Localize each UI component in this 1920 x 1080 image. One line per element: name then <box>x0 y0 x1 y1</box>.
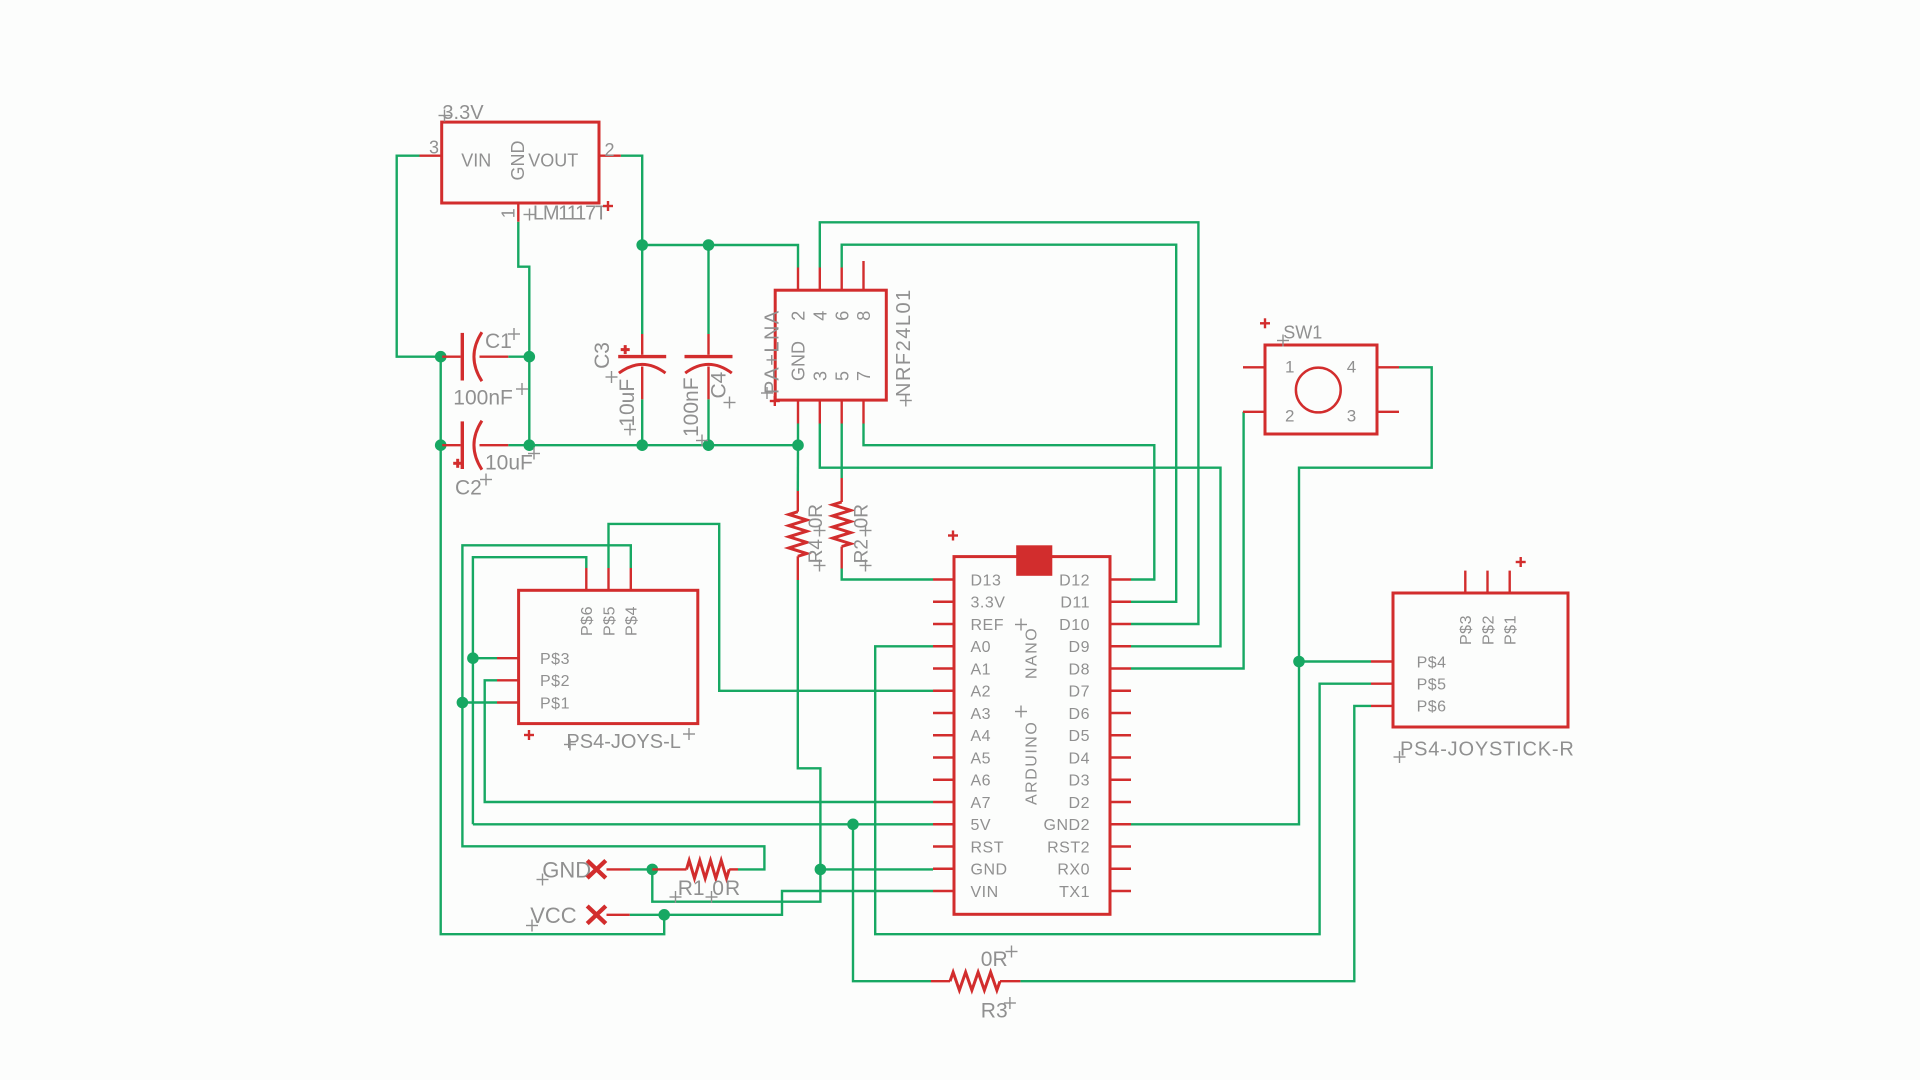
svg-text:2: 2 <box>789 311 809 321</box>
svg-text:P$6: P$6 <box>1417 699 1447 716</box>
PS4-JOYS-L origin cross <box>564 739 576 751</box>
no-connect flag GND label <box>542 858 591 883</box>
NRF pin 3 stub <box>819 400 821 423</box>
junction NRF GND / R4 <box>792 439 804 451</box>
R1 value 0R <box>712 877 741 900</box>
svg-text:A6: A6 <box>971 773 992 790</box>
wire P$1 junction up to P$4 top pin <box>462 545 630 702</box>
NRF pin 7 name <box>854 371 874 381</box>
LM1117T pin 2 number <box>605 140 615 160</box>
arduino NANO body <box>954 557 1110 915</box>
NANO pin A2 <box>933 684 991 701</box>
junction C3 top <box>636 239 648 251</box>
junction C2 right <box>524 439 536 451</box>
svg-text:P$4: P$4 <box>624 606 641 636</box>
NANO pin 3.3V <box>933 595 1005 612</box>
ARDUINO label origin cross <box>1015 706 1027 718</box>
NANO pin TX1 <box>1059 884 1131 901</box>
svg-text:D3: D3 <box>1069 773 1090 790</box>
svg-text:5: 5 <box>832 371 852 381</box>
C2 name label <box>455 477 482 500</box>
NANO pin A1 <box>933 661 991 678</box>
NANO pin A0 <box>933 639 991 656</box>
JOYSTICK-R pin P$3 stub <box>1464 571 1466 593</box>
svg-text:D5: D5 <box>1069 728 1090 745</box>
NRF pin 5 stub <box>841 400 843 423</box>
wire 3.3V: C3 top to C4 top <box>642 244 708 246</box>
capacitor C1 <box>442 332 508 381</box>
GND flag origin cross <box>537 874 549 886</box>
wire A7 to PS4-JOYS-L P$2 <box>485 680 933 802</box>
connector PS4-JOYS-L body <box>519 590 698 723</box>
junction C1 right <box>524 351 536 363</box>
svg-text:VCC: VCC <box>530 903 577 928</box>
svg-text:2: 2 <box>1285 407 1294 426</box>
wire GND: LM1117 pin1 to C1 right <box>518 222 529 357</box>
wire P$4 junction to P$4 stub <box>1299 660 1371 662</box>
NANO pin D4 <box>1069 750 1131 767</box>
NRF pin 2 name <box>789 311 809 321</box>
C2 name origin cross <box>480 474 492 486</box>
svg-text:REF: REF <box>971 617 1005 634</box>
JOYS-L pin P$5 name <box>601 606 618 636</box>
junction C4 top <box>703 239 715 251</box>
NANO pin A4 <box>933 728 991 745</box>
NANO pin D9 <box>1069 639 1131 656</box>
svg-text:D4: D4 <box>1069 750 1090 767</box>
SW1 pin 1 number <box>1285 358 1294 377</box>
wire GND: junction loop to R1 junction <box>652 869 820 901</box>
wire 5V: junction down to R3 left <box>853 824 931 981</box>
LM1117T origin cross <box>524 209 536 221</box>
svg-text:P$5: P$5 <box>601 606 618 636</box>
svg-text:TX1: TX1 <box>1059 884 1090 901</box>
regulator LM1117T body <box>442 122 599 203</box>
svg-text:R4: R4 <box>806 539 827 564</box>
C3 name origin cross <box>606 371 618 383</box>
NRF pin 2 stub <box>797 268 799 291</box>
NANO pin D8 <box>1069 661 1131 678</box>
PS4-JOYSTICK-R red origin mark <box>1516 557 1526 567</box>
JOYSTICK-R pin P$2 stub <box>1486 571 1488 593</box>
resistor R3 leads <box>931 980 1020 982</box>
C4 value origin cross <box>696 435 708 447</box>
svg-text:VIN: VIN <box>461 151 491 171</box>
JOYS-L pin P$1 stub <box>497 701 519 703</box>
NANO pin GND <box>933 862 1008 879</box>
svg-text:8: 8 <box>854 311 874 321</box>
wire 5V: junction up to P$6 top pin <box>473 557 586 658</box>
svg-text:PS4-JOYSTICK-R: PS4-JOYSTICK-R <box>1400 739 1575 761</box>
wire D13 to R2 bottom <box>842 569 933 580</box>
LM1117T pin name VOUT <box>528 151 578 171</box>
svg-text:C3: C3 <box>591 342 614 369</box>
PS4-JOYS-L red origin mark <box>524 730 534 740</box>
svg-text:GND2: GND2 <box>1044 817 1090 834</box>
junction VCC <box>658 909 670 921</box>
3.3V label origin cross <box>439 110 451 122</box>
svg-text:D8: D8 <box>1069 661 1090 678</box>
svg-text:P$5: P$5 <box>1417 677 1447 694</box>
NANO pin D2 <box>1069 795 1131 812</box>
SW1 name origin cross <box>1277 335 1289 347</box>
junction P$4 / GND2 <box>1293 656 1305 668</box>
svg-text:GND: GND <box>789 341 809 381</box>
NANO pin D3 <box>1069 773 1131 790</box>
LM1117T pin 1 stub <box>517 203 519 222</box>
NANO pin D11 <box>1060 595 1131 612</box>
JOYSTICK-R pin P$4 stub <box>1371 660 1393 662</box>
svg-text:3: 3 <box>429 138 439 158</box>
R4 value 0R <box>806 504 827 528</box>
JOYS-L pin P$2 stub <box>497 679 519 681</box>
svg-text:100nF: 100nF <box>680 377 703 437</box>
JOYSTICK-R pin P$5 stub <box>1371 683 1393 685</box>
wire NRF pin 7 to NANO D12 <box>864 424 1155 580</box>
svg-text:10uF: 10uF <box>485 452 533 475</box>
wire NRF pin 4 to NANO D10 <box>820 222 1199 624</box>
LM1117T pin name VIN <box>461 151 491 171</box>
NRF name origin cross <box>900 395 912 407</box>
svg-text:C4: C4 <box>708 371 731 398</box>
C4 value 100nF <box>680 377 703 437</box>
svg-text:0R: 0R <box>806 504 827 528</box>
resistor R4 leads <box>797 491 799 580</box>
C4 name label <box>708 371 731 398</box>
R2 name origin cross <box>860 560 872 572</box>
VCC flag origin cross <box>526 920 538 932</box>
JOYS-L pin P$6 name <box>579 606 596 636</box>
svg-text:A3: A3 <box>971 706 992 723</box>
R2 name label <box>852 539 873 563</box>
wire GND: R4 bottom to NANO GND junction <box>798 580 821 869</box>
JOYSTICK-R pin P$4 name <box>1417 654 1447 671</box>
SW1 pin 4 number <box>1347 358 1356 377</box>
JOYS-L pin P$1 name <box>540 695 570 712</box>
resistor R4 <box>789 512 807 557</box>
svg-text:RST: RST <box>971 839 1005 856</box>
svg-text:D9: D9 <box>1069 639 1090 656</box>
wire VIN net: LM1117 pin3 to C1 left <box>397 156 441 357</box>
wire GND: C3 bottom lead <box>641 399 643 445</box>
arduino NANO red tag <box>1016 545 1052 576</box>
svg-text:1: 1 <box>1285 358 1294 377</box>
wire VIN net: C1 left to C2 left <box>440 357 442 446</box>
NANO pin 5V <box>933 817 991 834</box>
JOYS-L pin P$3 name <box>540 651 570 668</box>
wire NRF pin 3 to NANO D9 <box>820 424 1221 647</box>
JOYS-L pin P$3 stub <box>497 657 519 659</box>
LM1117T pin 1 number <box>499 208 519 218</box>
svg-text:10uF: 10uF <box>616 379 639 427</box>
svg-text:PS4-JOYS-L: PS4-JOYS-L <box>566 731 680 753</box>
C2 value origin cross <box>528 448 540 460</box>
wire SW1 pin 2 to NANO D8 <box>1131 412 1244 669</box>
JOYSTICK-R pin P$3 name <box>1458 615 1475 645</box>
JOYS-L pin P$4 stub <box>630 568 632 590</box>
LM1117T pin 3 number <box>429 138 439 158</box>
SW1 pin 3 number <box>1347 407 1356 426</box>
LM1117T name label <box>533 203 607 225</box>
wire P$1 junction to P$1 stub <box>462 701 497 703</box>
GND flag stub <box>607 868 631 870</box>
JOYS-L pin P$6 stub <box>585 568 587 590</box>
C3 name label <box>591 342 614 369</box>
NANO pin D10 <box>1059 617 1131 634</box>
wire GND rail: C2 to C3 bottom <box>529 444 642 446</box>
wire VIN net: C2 left down to VCC junction <box>441 445 665 934</box>
svg-text:3.3V: 3.3V <box>442 102 484 124</box>
NRF pin 8 stub <box>862 261 864 290</box>
svg-text:1: 1 <box>499 208 519 218</box>
JOYSTICK-R pin P$6 stub <box>1371 705 1393 707</box>
svg-text:0R: 0R <box>852 504 873 528</box>
wire R1 right to PS4-JOYS-L P$1 junction <box>462 703 764 870</box>
capacitor C2 <box>442 421 508 470</box>
NRF pin GND name <box>789 341 809 381</box>
wire GND rail: C3 to C4 bottom <box>642 444 708 446</box>
junction GND flag / R1 <box>647 864 659 876</box>
svg-text:C1: C1 <box>485 330 512 353</box>
NANO pin D6 <box>1069 706 1131 723</box>
no-connect flag VCC label <box>530 903 577 928</box>
wire GND: C1 right to C2 right <box>528 357 530 446</box>
C3 polarity mark <box>621 345 630 354</box>
wire 3.3V: C3 top lead <box>641 245 643 334</box>
NANO pin A5 <box>933 750 991 767</box>
junction C3 bottom <box>636 439 648 451</box>
svg-text:C2: C2 <box>455 477 482 500</box>
NANO pin RST <box>933 839 1004 856</box>
NRF pin 6 name <box>832 311 852 321</box>
svg-text:RST2: RST2 <box>1047 839 1090 856</box>
NRF name NRF24L01 <box>893 288 915 397</box>
C2 value 10uF <box>485 452 533 475</box>
wire GND: C2 right lead <box>508 444 529 446</box>
junction P$3 / 5V <box>467 652 479 664</box>
C3 value origin cross <box>624 424 636 436</box>
R2 value 0R <box>852 504 873 528</box>
svg-text:A2: A2 <box>971 684 992 701</box>
junction C1 left <box>435 351 447 363</box>
svg-text:P$2: P$2 <box>1480 615 1497 645</box>
R3 value 0R <box>981 948 1008 971</box>
R3 name origin cross <box>1004 997 1016 1009</box>
JOYS-L pin P$2 name <box>540 673 570 690</box>
C1 value origin cross <box>516 383 528 395</box>
LM1117T pin 3 stub <box>420 154 442 156</box>
PS4-JOYSTICK-R name label <box>1400 739 1575 761</box>
resistor R1 leads <box>652 868 738 870</box>
svg-text:A4: A4 <box>971 728 992 745</box>
NANO pin A7 <box>933 795 991 812</box>
svg-text:P$3: P$3 <box>540 651 570 668</box>
resistor R2 <box>833 502 851 547</box>
C3 value 10uF <box>616 379 639 427</box>
NANO pin RX0 <box>1057 862 1131 879</box>
NANO pin D12 <box>1059 572 1131 589</box>
NANO pin GND2 <box>1044 817 1131 834</box>
NRF pin 4 stub <box>819 268 821 291</box>
SW1 pin 2 number <box>1285 407 1294 426</box>
svg-text:A7: A7 <box>971 795 992 812</box>
NRF value PA+LNA <box>762 309 784 394</box>
resistor R3 <box>950 972 1000 990</box>
NANO pin VIN <box>933 884 999 901</box>
junction P$1 / R1 <box>457 697 469 709</box>
svg-text:4: 4 <box>810 311 830 321</box>
resistor R2 leads <box>841 478 843 569</box>
svg-text:P$1: P$1 <box>1503 615 1520 645</box>
svg-text:R2: R2 <box>852 539 873 563</box>
wire NRF pin 6 to NANO D11 <box>842 245 1176 602</box>
wire GND: junction to NANO GND pin <box>820 868 933 870</box>
NANO pin D5 <box>1069 728 1131 745</box>
JOYSTICK-R pin P$1 name <box>1503 615 1520 645</box>
C1 value 100nF <box>453 387 513 410</box>
svg-text:SW1: SW1 <box>1283 323 1322 343</box>
svg-text:R1: R1 <box>678 877 705 900</box>
svg-text:RX0: RX0 <box>1057 862 1090 879</box>
JOYSTICK-R pin P$6 name <box>1417 699 1447 716</box>
NRF red origin mark <box>770 396 780 406</box>
R4 value origin cross <box>814 525 826 537</box>
R3 name label <box>981 1000 1008 1023</box>
NRF pin 3 name <box>810 371 830 381</box>
wire GND rail: C4 to NRF GND junction <box>709 444 799 446</box>
NRF pin 6 stub <box>841 268 843 291</box>
wire GND: NRF GND pin to junction <box>797 424 799 446</box>
svg-text:100nF: 100nF <box>453 387 513 410</box>
JOYS-L pin P$5 stub <box>607 568 609 590</box>
svg-text:6: 6 <box>832 311 852 321</box>
SW1 name label <box>1283 323 1322 343</box>
wire GND flag to R1 junction <box>630 868 652 870</box>
NANO label origin cross <box>1015 619 1027 631</box>
C2 polarity mark <box>453 459 462 468</box>
SW1 pin 3 stub <box>1377 411 1399 413</box>
svg-text:D13: D13 <box>971 572 1002 589</box>
NRF pin GND stub <box>797 400 799 423</box>
NANO pin D7 <box>1069 684 1131 701</box>
NRF pin 8 name <box>854 311 874 321</box>
svg-text:VIN: VIN <box>971 884 999 901</box>
svg-text:GND: GND <box>971 862 1008 879</box>
VCC flag X mark <box>587 906 606 924</box>
wire R2 top to NRF pin 5 <box>841 424 843 479</box>
wire GND: C4 bottom lead <box>707 399 709 445</box>
wire 3.3V: LM1117 VOUT to C3 top junction <box>621 156 642 245</box>
svg-text:P$4: P$4 <box>1417 654 1447 671</box>
LM1117T pin 2 stub <box>599 154 621 156</box>
SW1 button circle <box>1296 368 1341 413</box>
wire 5V: riser to P$3 junction <box>472 658 474 824</box>
connector PS4-JOYSTICK-R body <box>1393 593 1568 727</box>
LM1117T pin name GND <box>508 141 528 181</box>
wire GND: junction to R4 top <box>797 445 800 491</box>
wire SW1 pin 4 to P$4 junction <box>1299 367 1432 661</box>
PS4-JOYS-L name label <box>566 731 680 753</box>
svg-text:2: 2 <box>605 140 615 160</box>
SW1 pin 4 stub <box>1377 366 1399 368</box>
arduino red origin mark <box>948 531 958 541</box>
GND flag X mark <box>587 861 606 879</box>
SW1 pin 1 stub <box>1243 366 1265 368</box>
JOYSTICK-R pin P$2 name <box>1480 615 1497 645</box>
svg-text:ARDUINO: ARDUINO <box>1024 721 1041 805</box>
capacitor C4 <box>685 334 733 399</box>
NANO pin D13 <box>933 572 1001 589</box>
net label 3.3V <box>442 102 484 124</box>
wire 3.3V: C4 top to NRF pin 2 <box>709 245 799 268</box>
svg-text:PA+LNA: PA+LNA <box>762 309 784 394</box>
SW1 red origin mark <box>1260 318 1270 328</box>
svg-text:D12: D12 <box>1059 572 1090 589</box>
NANO label <box>1024 627 1041 679</box>
svg-text:5V: 5V <box>971 817 992 834</box>
NANO pin RST2 <box>1047 839 1131 856</box>
R1 name origin cross <box>670 891 682 903</box>
ARDUINO label <box>1024 721 1041 805</box>
svg-text:R3: R3 <box>981 1000 1008 1023</box>
svg-text:GND: GND <box>508 141 528 181</box>
NRF pin 5 name <box>832 371 852 381</box>
svg-text:D11: D11 <box>1060 595 1090 612</box>
svg-text:LM1117T: LM1117T <box>533 203 607 225</box>
VCC flag stub <box>607 914 630 916</box>
junction C4 bottom <box>703 439 715 451</box>
svg-text:A5: A5 <box>971 750 992 767</box>
resistor R1 <box>687 860 730 878</box>
capacitor C3 <box>618 334 666 399</box>
SW1 pin 2 stub <box>1243 411 1265 413</box>
JOYS-L pin P$4 name <box>624 606 641 636</box>
svg-text:GND: GND <box>542 858 591 883</box>
wire 5V: NANO 5V to left riser <box>473 823 933 825</box>
PS4-JOYS-L name cross 2 <box>683 728 695 740</box>
switch SW1 body <box>1265 345 1377 434</box>
svg-text:3.3V: 3.3V <box>971 595 1006 612</box>
svg-text:4: 4 <box>1347 358 1356 377</box>
svg-text:0R: 0R <box>981 948 1008 971</box>
wire P$4 junction to NANO GND2 <box>1131 662 1299 825</box>
R2 value origin cross <box>860 525 872 537</box>
svg-text:D2: D2 <box>1069 795 1090 812</box>
svg-text:D6: D6 <box>1069 706 1090 723</box>
wire VCC junction to NANO VIN <box>664 891 933 915</box>
svg-text:7: 7 <box>854 371 874 381</box>
NANO pin A6 <box>933 773 991 790</box>
R4 name label <box>806 539 827 564</box>
C4 name origin cross <box>724 397 736 409</box>
wire 3.3V: C4 top lead <box>707 245 709 334</box>
JOYSTICK-R pin P$1 stub <box>1508 571 1510 593</box>
junction GND at NANO <box>815 864 827 876</box>
wire A2 to PS4-JOYS-L P$5 <box>609 524 934 691</box>
junction C2 left <box>435 439 447 451</box>
NANO pin A3 <box>933 706 991 723</box>
wire 5V: junction to P$3 stub <box>473 657 497 659</box>
svg-text:P$6: P$6 <box>579 606 596 636</box>
svg-text:P$3: P$3 <box>1458 615 1475 645</box>
R4 name origin cross <box>814 560 826 572</box>
R3 value origin cross <box>1006 946 1018 958</box>
R1 name label <box>678 877 705 900</box>
wire R3 right to PS4-JOYSTICK-R P$6 <box>1020 706 1371 981</box>
R1 value origin cross <box>706 891 718 903</box>
C1 name label <box>485 330 512 353</box>
NRF pin 4 name <box>810 311 830 321</box>
